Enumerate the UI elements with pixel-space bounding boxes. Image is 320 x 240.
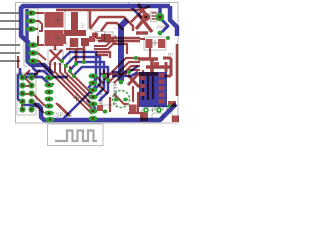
svg-text:R7: R7 bbox=[168, 52, 174, 57]
svg-text:R2: R2 bbox=[80, 22, 85, 28]
